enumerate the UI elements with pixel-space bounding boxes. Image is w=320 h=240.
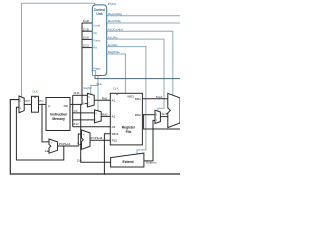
svg-text:PC': PC' [25,99,30,103]
svg-text:WD3: WD3 [112,132,119,136]
wire ALUSrc control [107,39,165,111]
wire ExtImm [144,120,155,160]
svg-text:RA1: RA1 [102,96,108,100]
flags register [92,71,95,76]
node Result/WD3 junction [104,174,105,175]
svg-text:+: + [51,141,53,145]
svg-text:RD1: RD1 [135,97,141,101]
svg-text:23:0: 23:0 [77,159,82,162]
wire Instr 15:12 to A3 [73,126,111,128]
svg-text:RegWrite: RegWrite [108,50,120,54]
svg-text:SrcB: SrcB [162,112,169,116]
adder PCPlus8 [82,130,91,149]
node WriteData tap [143,114,144,115]
wire PCPlus4 wrap to PC mux input 0 [16,107,63,160]
wire Rd stub [82,47,93,49]
node PC tap [41,104,42,105]
wire RegWrite control [107,54,126,93]
wire Instr to control unit vertical [81,23,83,104]
wire MemtoReg control [107,15,181,17]
svg-text:+: + [83,132,85,136]
svg-text:WE3: WE3 [127,95,134,99]
svg-text:CLK: CLK [32,89,38,93]
svg-text:ExtImm: ExtImm [146,160,157,164]
wire 15 constant to mux RA1 [85,103,88,105]
svg-text:ImmSrc: ImmSrc [108,43,119,47]
clk wedge register file [116,93,119,95]
wire Instr fan vertical [72,95,74,127]
wire Op stub [82,30,93,32]
wire RegSrc branch to mux RA1 [91,86,98,95]
wire RA1 [94,99,110,101]
wire ALUFlags bus [95,76,180,79]
node instr op stub [81,31,82,32]
svg-text:25:20: 25:20 [83,37,90,40]
wire PC' [24,103,31,105]
wire RD1 to ALU (SrcA) [142,98,167,100]
wire PCPlus4 out [58,134,82,146]
svg-text:ALUControl: ALUControl [108,28,123,32]
mux RA1 [87,93,94,107]
svg-text:A2: A2 [112,115,116,119]
svg-text:Unit: Unit [96,12,103,16]
svg-text:Flags: Flags [93,66,100,70]
wire RA2 [101,115,110,117]
node instr 15:12 [72,119,73,120]
svg-text:Funct: Funct [93,38,100,42]
svg-text:MemWrite: MemWrite [108,19,122,23]
wire Cond stub [82,22,93,24]
svg-text:RegSrc: RegSrc [84,87,93,90]
wire MemWrite control [107,22,181,24]
wire ALUControl control [107,31,173,95]
svg-text:Extend: Extend [123,160,134,164]
register PC [32,96,39,112]
wire PC out [39,103,47,105]
svg-text:31:28: 31:28 [83,20,90,23]
svg-text:PCPlus4: PCPlus4 [59,142,71,146]
svg-text:Cond: Cond [93,24,100,28]
svg-text:Instruction: Instruction [50,113,67,117]
wire Result to WD3 [104,134,110,175]
node Instr fan [72,104,73,105]
register file [110,93,142,145]
svg-text:SrcA: SrcA [156,95,163,99]
wire PC tap to PCPlus4 adder [42,104,49,141]
svg-text:19:16: 19:16 [73,92,80,95]
op-amp ALU [168,93,180,127]
wire RegSrc control [97,76,99,111]
svg-text:Memory: Memory [52,117,65,121]
svg-text:PCPlus8: PCPlus8 [91,136,103,140]
wire PCPlus8 out to R15 [90,139,110,141]
svg-text:MemtoReg: MemtoReg [108,12,123,16]
svg-text:RD2: RD2 [135,113,141,117]
wire 4 constant to adder2 [79,144,81,146]
instruction memory [46,98,70,131]
svg-text:Rd: Rd [93,46,97,50]
wire Instr 19:16 to mux RA1 [73,94,88,96]
clk wedge PC [34,96,37,98]
wire Result bus (bottom wrap to PC mux input 1) [10,100,180,174]
mux RA2 [95,110,102,123]
wire SrcB to ALU [160,116,167,118]
wire RD2 to mux SrcB [142,114,155,116]
svg-text:PCSrc: PCSrc [108,2,117,6]
node instr 23:0 [80,104,81,105]
wire Instr bus [70,103,82,105]
wire Instr 15:12 to mux RA2 [73,119,95,121]
wire WriteData [144,115,180,129]
svg-text:CLK: CLK [113,87,119,91]
extend unit [111,153,144,167]
mux PCSrc (PC' select) [19,96,24,113]
node PCPlus4 junction [63,145,64,146]
svg-text:Register: Register [122,125,136,129]
svg-text:A: A [48,104,50,108]
svg-text:27:26: 27:26 [83,28,90,31]
svg-text:15:12: 15:12 [73,123,80,126]
svg-text:R15: R15 [112,139,118,143]
control unit [92,5,106,76]
svg-text:RA2: RA2 [102,112,108,116]
wire ImmSrc control [107,47,146,155]
svg-text:CLK: CLK [96,82,102,86]
wire 4 constant to adder1 [47,150,49,152]
svg-text:Op: Op [93,31,97,35]
mux SrcB [155,110,160,123]
svg-text:A1: A1 [112,98,116,102]
svg-text:File: File [126,130,132,134]
adder PCPlus4 [49,139,58,153]
wire Instr 3:0 to mux RA2 [73,112,95,114]
wire Funct stub [82,38,93,40]
svg-text:15:12: 15:12 [83,45,90,48]
svg-text:ALUSrc: ALUSrc [108,35,119,39]
wire PCSrc control (top + left) [22,3,95,97]
wire Instr 23:0 to Extend [81,104,111,162]
node instr 3:0 [72,112,73,113]
svg-text:A3: A3 [112,125,116,129]
